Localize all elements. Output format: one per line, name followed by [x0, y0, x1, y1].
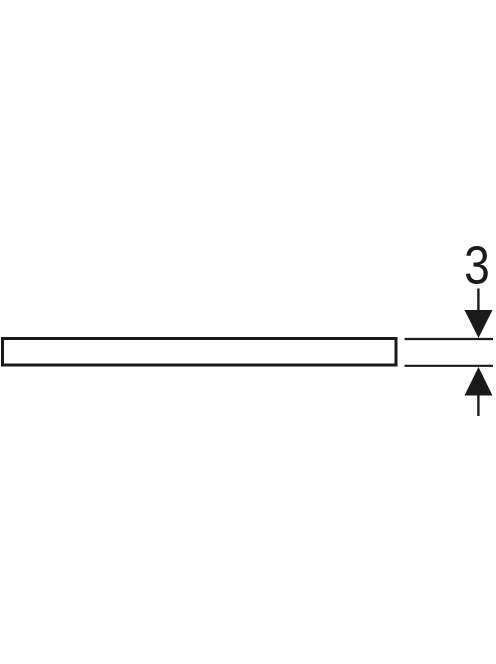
svg-text:3: 3	[464, 235, 490, 295]
